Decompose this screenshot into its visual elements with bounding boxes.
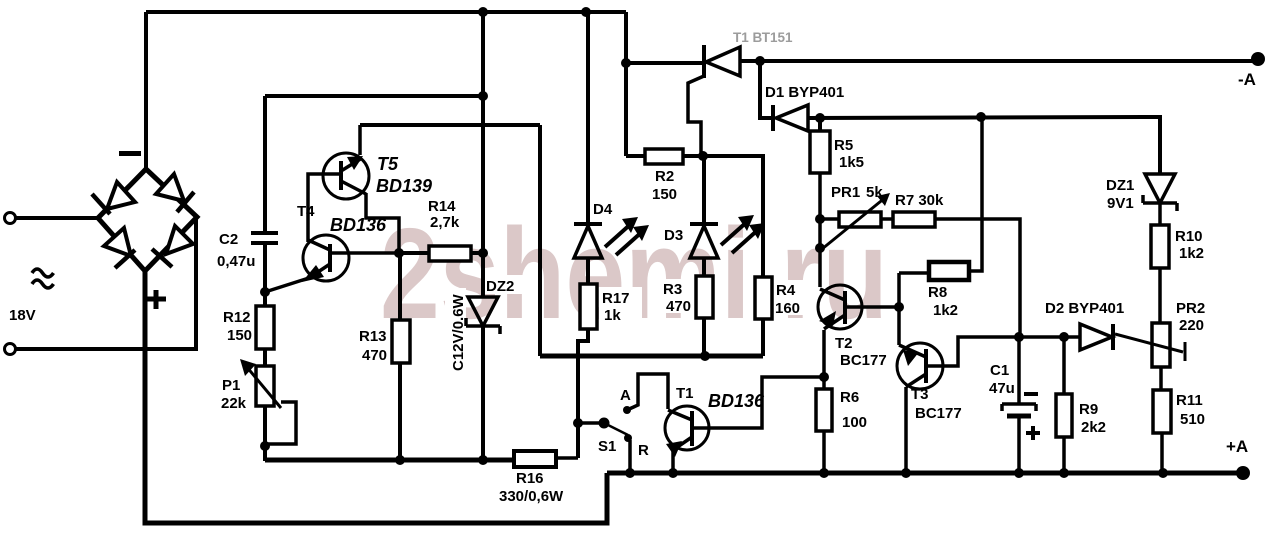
svg-text:C1: C1 [990,362,1009,379]
svg-text:R8: R8 [928,284,947,301]
svg-text:220: 220 [1179,317,1204,334]
svg-text:9V1: 9V1 [1107,195,1134,212]
svg-text:Т1 ВТ151: Т1 ВТ151 [733,30,793,45]
svg-text:D3: D3 [664,227,683,244]
svg-text:C12V/0.6W: C12V/0.6W [450,293,467,371]
svg-text:330/0,6W: 330/0,6W [499,488,564,505]
svg-text:C2: C2 [219,231,238,248]
svg-text:BC177: BC177 [915,405,962,422]
svg-text:A: A [620,387,631,404]
svg-text:R7 30k: R7 30k [895,192,944,209]
svg-text:R11: R11 [1176,392,1203,409]
svg-text:22k: 22k [221,395,247,412]
svg-text:DZ1: DZ1 [1106,177,1134,194]
svg-text:1k5: 1k5 [839,154,864,171]
svg-text:DZ2: DZ2 [486,278,514,295]
svg-text:PR1: PR1 [831,184,860,201]
svg-text:2,7k: 2,7k [430,214,460,231]
svg-text:510: 510 [1180,411,1205,428]
svg-text:D4: D4 [593,201,613,218]
svg-text:R6: R6 [840,389,859,406]
svg-text:1k2: 1k2 [1179,245,1204,262]
svg-text:BC177: BC177 [840,352,887,369]
svg-text:-A: -A [1238,70,1256,89]
svg-text:T5: T5 [377,154,399,174]
svg-text:R9: R9 [1079,401,1098,418]
svg-text:R10: R10 [1175,228,1203,245]
svg-text:R2: R2 [655,168,674,185]
svg-text:0,47u: 0,47u [217,253,255,270]
svg-text:5k: 5k [866,184,883,201]
svg-text:R17: R17 [602,290,630,307]
svg-text:P1: P1 [222,377,240,394]
svg-text:T4: T4 [297,203,315,220]
svg-text:R5: R5 [834,137,853,154]
svg-text:R14: R14 [428,198,456,215]
svg-text:BD139: BD139 [376,176,432,196]
svg-text:T3: T3 [911,386,929,403]
svg-text:T1: T1 [676,385,694,402]
svg-text:150: 150 [652,186,677,203]
svg-text:+A: +A [1226,437,1248,456]
svg-text:T2: T2 [835,335,853,352]
svg-text:160: 160 [775,300,800,317]
svg-text:R: R [638,442,649,459]
svg-text:R13: R13 [359,328,387,345]
svg-text:D1 BYP401: D1 BYP401 [765,84,844,101]
svg-text:BD136: BD136 [330,215,387,235]
svg-text:1k2: 1k2 [933,302,958,319]
svg-text:470: 470 [362,347,387,364]
svg-text:D2 BYP401: D2 BYP401 [1045,300,1124,317]
svg-text:R4: R4 [776,282,796,299]
svg-text:R3: R3 [663,281,682,298]
svg-text:BD136: BD136 [708,391,765,411]
svg-text:150: 150 [227,327,252,344]
svg-text:470: 470 [666,298,691,315]
svg-text:18V: 18V [9,307,36,324]
svg-text:PR2: PR2 [1176,300,1205,317]
svg-text:2k2: 2k2 [1081,419,1106,436]
svg-text:S1: S1 [598,438,616,455]
svg-text:R16: R16 [516,470,544,487]
svg-text:100: 100 [842,414,867,431]
svg-text:1k: 1k [604,307,621,324]
svg-text:47u: 47u [989,380,1015,397]
svg-text:R12: R12 [223,309,251,326]
